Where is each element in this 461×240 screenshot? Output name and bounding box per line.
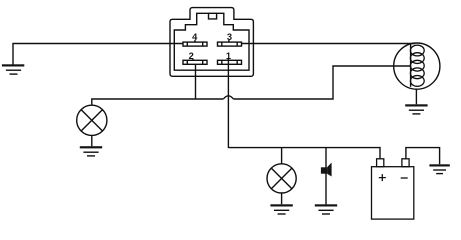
battery negative terminal	[402, 159, 409, 167]
wire drop to lamp L2	[281, 148, 283, 164]
wire pin 2 down to node	[195, 64, 197, 99]
ground G1 far left	[2, 64, 24, 74]
wire hop over pin1 wire	[223, 96, 233, 99]
pin 4 slot	[183, 40, 207, 46]
battery body	[372, 167, 414, 219]
speaker SP	[321, 163, 332, 177]
svg-text:4: 4	[192, 32, 198, 42]
ground G2 under coil	[405, 104, 427, 114]
ground G4 under lamp L2	[270, 204, 292, 214]
ground G6 right of battery	[429, 164, 449, 173]
wire top-left net from ground to pin 4	[13, 44, 183, 66]
wire junction row to coil	[233, 66, 411, 99]
connector X1 outer housing	[170, 8, 253, 77]
ground G3 under lamp L1	[80, 146, 102, 156]
connector X1 inner housing	[174, 13, 249, 70]
battery positive terminal	[377, 159, 384, 167]
pin 3 slot	[218, 40, 242, 46]
svg-text:2: 2	[189, 51, 194, 61]
battery BT1	[372, 159, 414, 219]
flasher coil unit	[394, 43, 440, 104]
svg-text:3: 3	[227, 32, 232, 42]
pin 2 slot	[183, 59, 207, 64]
wire drop through speaker to ground	[325, 148, 327, 205]
ground G5 under speaker	[315, 204, 337, 214]
wire battery minus to ground G6	[406, 148, 440, 165]
lamp L2	[267, 164, 296, 205]
battery label +	[379, 174, 386, 181]
wire bottom rail to battery plus	[228, 148, 380, 159]
lamp L1	[77, 105, 107, 146]
wire pin 1 down to bottom rail	[227, 59, 229, 148]
connector notch top	[209, 12, 217, 14]
pin 1 slot	[218, 60, 242, 64]
battery label -	[401, 177, 408, 179]
wire pin 3 to flasher coil	[241, 43, 414, 45]
wire lamp L1 to junction row	[92, 99, 224, 105]
